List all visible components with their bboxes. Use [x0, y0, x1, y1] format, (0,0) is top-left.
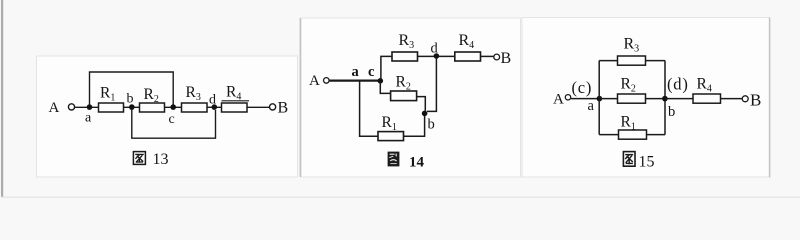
node b (fig13) [129, 104, 135, 110]
wire b-to-R4 (fig15) [665, 98, 693, 100]
branch wire a-down-to-R1 (fig14) [360, 81, 378, 136]
separator line panels 1-2 [300, 18, 302, 177]
svg-text:b: b [668, 104, 675, 120]
svg-text:A: A [553, 92, 564, 108]
right border of panel 3 [769, 18, 771, 178]
svg-text:a: a [85, 111, 92, 126]
caption glyph TU (fig13) [133, 152, 145, 165]
panel: figure 13 frame [37, 56, 298, 177]
wire R2-to-b (fig14) [417, 97, 426, 111]
svg-text:(d): (d) [667, 75, 689, 94]
node a (fig15) [597, 96, 603, 102]
right junction vertical (fig15) [664, 61, 666, 135]
resistor R1 (fig15) [619, 130, 647, 139]
svg-text:(c): (c) [572, 78, 593, 97]
wire A-to-a (fig15) [571, 98, 600, 100]
terminal A circle (fig14) [324, 78, 330, 84]
panel: figure 15 frame [522, 18, 770, 178]
main wire A-to-c (fig14) [329, 79, 380, 81]
node d (fig13) [212, 104, 218, 110]
svg-text:A: A [49, 100, 60, 116]
svg-text:b: b [127, 92, 134, 107]
resistor R4 (fig13) [222, 103, 248, 112]
terminal B circle (fig15) [742, 96, 748, 102]
middle branch wire (fig15) [599, 98, 665, 100]
terminal B circle (fig14) [494, 54, 500, 60]
page left border bar [1, 0, 3, 197]
panel: figure 14 frame [301, 18, 521, 177]
branch wire c-up-to-R3 (fig14) [381, 56, 392, 80]
node b (fig15) [662, 96, 668, 102]
resistor R2 (fig14) [391, 91, 417, 101]
underline of label R4 (fig13) [222, 100, 250, 102]
left junction vertical (fig15) [598, 61, 600, 135]
node c (fig14) [378, 78, 384, 84]
terminal A circle (fig15) [565, 95, 570, 100]
resistor R1 (fig14) [378, 132, 404, 141]
wire R3-to-d (fig14) [418, 55, 455, 57]
node d (fig14) [434, 53, 440, 59]
wire R1-to-b (fig14) [404, 116, 425, 137]
svg-text:d: d [209, 93, 216, 108]
wire R2-to-R3 (fig13) [165, 106, 182, 108]
svg-text:14: 14 [409, 155, 425, 171]
caption glyph TU (fig15) [623, 152, 635, 167]
svg-text:c: c [169, 112, 175, 127]
svg-text:B: B [750, 91, 761, 110]
node a (fig13) [87, 104, 93, 110]
svg-text:A: A [309, 73, 320, 89]
resistor R3 (fig15) [618, 56, 646, 65]
wire R3-to-R4 (fig13) [207, 106, 222, 108]
wire R4-to-B (fig15) [721, 98, 743, 100]
bottom branch wire (fig15) [599, 134, 665, 136]
terminal B circle (fig13) [270, 104, 276, 110]
svg-text:B: B [278, 99, 289, 116]
wire R1-to-R2 (fig13) [124, 106, 140, 108]
top bypass wire a-to-c (fig13) [90, 72, 174, 106]
svg-text:B: B [501, 50, 512, 67]
svg-text:a: a [588, 98, 595, 114]
node c (fig13) [170, 104, 176, 110]
svg-text:13: 13 [153, 151, 169, 168]
wire d-down-to-b (fig14) [427, 58, 436, 112]
resistor R3 (fig14) [392, 52, 418, 61]
resistor R2 (fig15) [618, 94, 646, 103]
wire R4-to-B (fig14) [481, 55, 494, 57]
wire A-to-R1 (fig13) [75, 106, 99, 108]
bottom bypass wire b-to-d (fig13) [132, 109, 216, 139]
resistor R4 (fig15) [693, 94, 721, 103]
resistor R2 (fig13) [140, 103, 165, 112]
page bottom hairline [1, 197, 800, 198]
svg-text:15: 15 [639, 154, 655, 171]
svg-text:a: a [352, 64, 360, 80]
svg-text:c: c [368, 64, 375, 80]
wire R4-to-B (fig13) [247, 106, 269, 108]
caption glyph TU (fig14) [388, 152, 400, 167]
resistor R1 (fig13) [99, 103, 124, 112]
node b (fig14) [422, 111, 428, 117]
terminal A circle (fig13) [68, 104, 74, 110]
resistor R4 (fig14) [455, 52, 481, 61]
top branch wire (fig15) [599, 60, 665, 62]
svg-text:b: b [428, 117, 435, 133]
branch wire c-down-to-R2 (fig14) [380, 82, 390, 93]
resistor R3 (fig13) [182, 103, 208, 112]
svg-text:d: d [431, 41, 439, 57]
